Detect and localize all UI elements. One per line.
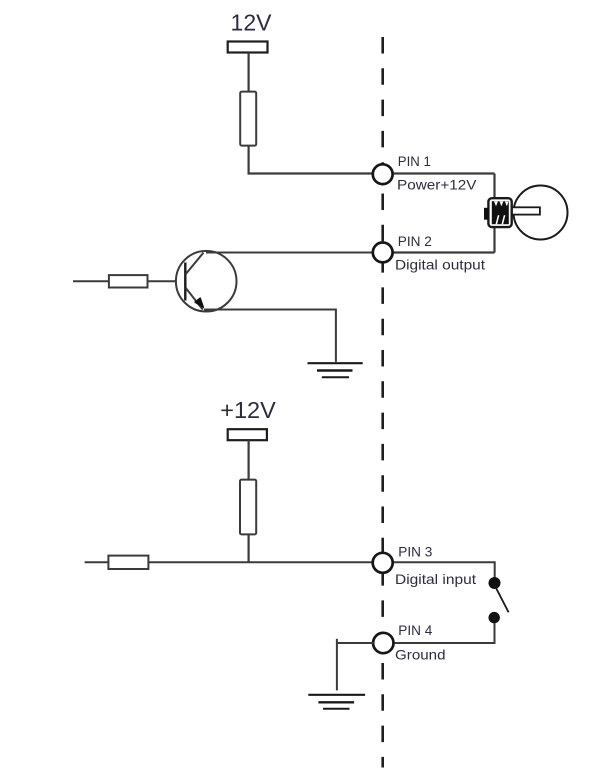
lamp L1 glass (514, 186, 568, 240)
power rail bar 12V (228, 42, 268, 53)
resistor R4 (109, 275, 148, 287)
svg-text:Ground: Ground (395, 647, 446, 663)
lamp L1 stem (512, 207, 540, 214)
lamp L1 base (488, 198, 511, 227)
power rail bar +12V (228, 429, 267, 440)
pin circle PIN 2 (373, 243, 393, 263)
wire PIN 1 to lamp (392, 172, 495, 174)
input wire to PIN 3 (85, 561, 374, 563)
wire R2 down (248, 534, 250, 562)
svg-text:Digital input: Digital input (395, 571, 476, 587)
lamp L1 contact tip (484, 208, 489, 220)
resistor R2 (240, 480, 256, 535)
pin circle PIN 4 (373, 633, 393, 653)
wire PIN 2 to lamp (392, 251, 495, 253)
svg-text:PIN 4: PIN 4 (398, 622, 432, 638)
resistor R3 (108, 556, 148, 569)
ground symbol Q1 emitter (308, 363, 363, 377)
transistor Q1 (176, 251, 237, 312)
wire R1 to PIN 1 (249, 146, 374, 174)
resistor R1 (240, 92, 256, 146)
svg-text:12V: 12V (231, 10, 273, 36)
dashed separator line (381, 37, 384, 768)
wire switch to PIN 4 (393, 623, 495, 643)
wire PIN 3 to switch (392, 562, 495, 577)
emitter wire (204, 310, 336, 362)
svg-text:Digital output: Digital output (395, 256, 485, 272)
svg-text:PIN 2: PIN 2 (398, 233, 432, 249)
switch S1 (489, 577, 509, 623)
wire PIN 4 to ground (337, 643, 374, 690)
wire rail to R1 (248, 53, 250, 93)
svg-text:+12V: +12V (220, 397, 276, 423)
wire rail to R2 (248, 440, 250, 480)
wire collector to PIN 2 (206, 252, 374, 254)
junction stub (336, 639, 338, 643)
wire lamp vertical (493, 174, 495, 253)
base wire with resistor R4 (73, 280, 176, 282)
pin circle PIN 3 (373, 553, 393, 573)
ground symbol PIN 4 (308, 695, 365, 709)
svg-text:Power+12V: Power+12V (397, 176, 477, 192)
svg-text:PIN 3: PIN 3 (398, 544, 432, 560)
pin circle PIN 1 (373, 164, 393, 184)
svg-text:PIN 1: PIN 1 (398, 153, 431, 169)
